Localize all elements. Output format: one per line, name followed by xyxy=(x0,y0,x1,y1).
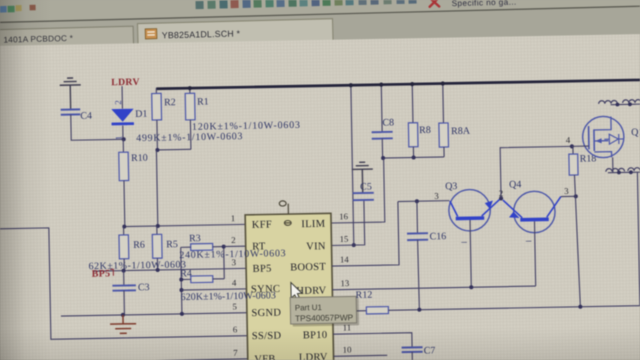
body diode xyxy=(604,134,623,144)
resistor R2 xyxy=(152,88,177,150)
svg-text:VIN: VIN xyxy=(306,241,326,252)
svg-text:R1: R1 xyxy=(197,97,209,108)
node: R4 left xyxy=(179,278,183,282)
wire: source row xyxy=(608,171,640,174)
svg-text:HDRV: HDRV xyxy=(296,285,326,297)
wire: SGND pin 5 net xyxy=(61,313,247,316)
wire: right edge drop to SW net xyxy=(637,172,639,305)
svg-text:R2: R2 xyxy=(164,97,176,108)
svg-text:R3: R3 xyxy=(189,233,201,244)
ground (power ground below C3, brown) xyxy=(110,315,136,334)
node: C3 bottom xyxy=(121,313,125,317)
wire: rail down to VIN pin 15 xyxy=(351,84,354,245)
inductor coils on source row xyxy=(606,168,640,172)
svg-text:499K±1%-1/10W-0603: 499K±1%-1/10W-0603 xyxy=(136,131,243,144)
svg-text:SGND: SGND xyxy=(251,308,281,320)
svg-text:15: 15 xyxy=(339,234,349,244)
resistor R8 xyxy=(408,83,432,158)
node: emitter junction xyxy=(499,196,503,200)
node: R2col/R5 on KFF xyxy=(156,224,160,228)
wire: ILIM riser down to pin 16 xyxy=(330,158,385,223)
transistor Q1 (power MOSFET) xyxy=(571,116,624,158)
wire: ILIM node horizontal (C8/R8/R8A bottoms) xyxy=(383,157,444,158)
svg-text:BP10: BP10 xyxy=(303,330,328,341)
svg-text:Q3: Q3 xyxy=(445,181,457,192)
resistor R6 xyxy=(119,226,145,270)
mouse cursor xyxy=(291,282,302,300)
svg-text:R5: R5 xyxy=(166,239,178,250)
channel bar xyxy=(593,129,595,151)
svg-text:BP5: BP5 xyxy=(253,264,272,275)
svg-text:C3: C3 xyxy=(138,282,150,293)
wire: RT pin 2 xyxy=(224,245,246,247)
wire: SYNC pin 4 xyxy=(181,289,246,290)
svg-text:240K±1%-1/10W-0603: 240K±1%-1/10W-0603 xyxy=(179,248,286,261)
wire: C4 bottom to D1 node xyxy=(71,114,124,141)
source stub xyxy=(594,152,611,158)
transistor Q3 (NPN) xyxy=(445,180,502,287)
svg-text:6: 6 xyxy=(233,324,238,334)
capacitor C4 xyxy=(61,109,92,122)
wire: drain row xyxy=(611,103,640,106)
U1 right pin numbers xyxy=(339,211,352,354)
wire: BP10 pin 11 to C7 xyxy=(333,333,412,349)
node: drain row junctions xyxy=(616,103,620,107)
svg-text:R12: R12 xyxy=(356,290,373,301)
node: C16 top tap xyxy=(415,199,419,203)
svg-text:1: 1 xyxy=(231,213,236,223)
wire: RT column (R3/R4 right to pin 2) xyxy=(223,247,226,279)
svg-text:2: 2 xyxy=(231,235,236,245)
capacitor C7 xyxy=(402,345,436,360)
svg-text:R10: R10 xyxy=(131,153,148,164)
svg-text:LDRV: LDRV xyxy=(111,77,140,89)
resistor R18 xyxy=(569,146,599,307)
svg-text:Part U1: Part U1 xyxy=(295,303,323,313)
node: Q3 base on HDRV xyxy=(469,285,473,289)
svg-text:10: 10 xyxy=(343,345,353,355)
pin 17 pad stub with bubble xyxy=(287,204,289,214)
svg-text:C5: C5 xyxy=(360,182,372,193)
resistor R8A xyxy=(438,82,471,157)
inductor coils above drain row xyxy=(599,100,640,104)
capacitor C16 xyxy=(406,201,447,310)
wire: off-page L into SS/SD pin 6 xyxy=(0,224,247,340)
tab 1: 1401A PCBDOC xyxy=(0,26,134,48)
node: C8 top on rail xyxy=(379,83,383,87)
wire: VFB pin 7 xyxy=(147,359,247,360)
toolbar red X icon xyxy=(429,0,439,7)
U1 left pin names xyxy=(250,219,283,360)
wire: emitter node riser to gate line xyxy=(500,146,573,198)
resistor R4 xyxy=(180,268,224,283)
mid stub with arrow xyxy=(594,140,608,142)
capacitor C8 xyxy=(371,84,395,159)
resistor R10 xyxy=(119,139,149,227)
resistor R5 xyxy=(152,226,178,270)
node: R1 top on rail xyxy=(188,86,192,90)
svg-text:C4: C4 xyxy=(80,111,92,122)
node: on R18 column xyxy=(574,194,578,198)
svg-text:4: 4 xyxy=(232,278,237,288)
capacitor C3 xyxy=(112,270,150,315)
wire: R2/R1 bottoms joined xyxy=(157,148,190,151)
svg-text:7: 7 xyxy=(233,348,238,358)
toolbar strip xyxy=(0,0,640,23)
svg-text:YB825A1DL.SCH *: YB825A1DL.SCH * xyxy=(162,28,241,40)
wire: SW pin 12 net with R12 xyxy=(333,310,367,313)
tab 2: YB825A1DL.SCH (active) xyxy=(138,19,334,46)
node: R5 on BP5 net xyxy=(156,268,160,272)
node: R2 bottom junction xyxy=(155,148,159,152)
node: D1/C4/R10 junction xyxy=(122,137,126,141)
node: RT node xyxy=(222,245,226,249)
drain stub xyxy=(594,117,611,130)
svg-text:KFF: KFF xyxy=(252,219,272,230)
pad marker inside xyxy=(284,220,291,225)
svg-text:Q4: Q4 xyxy=(509,179,521,190)
svg-text:R8A: R8A xyxy=(451,126,471,137)
svg-text:3: 3 xyxy=(564,186,569,196)
svg-text:5: 5 xyxy=(232,301,237,311)
node: R18 bottom on SW net xyxy=(578,305,582,309)
node: R8A top on rail xyxy=(441,81,445,85)
wire: KFF column down from R2 node xyxy=(156,150,157,226)
wire: BOOST pin 14 xyxy=(331,202,399,267)
wire: BOOST node to Q3 collector xyxy=(398,200,449,203)
ground (above C4) xyxy=(60,78,82,110)
toolbar icon specks left corner xyxy=(0,5,36,13)
node: C16 bottom on SW net xyxy=(417,308,421,312)
svg-text:D1: D1 xyxy=(135,109,147,120)
svg-text:−: − xyxy=(525,234,532,248)
op-amp U1 body (TPS40057PWP controller) xyxy=(245,200,334,360)
transistor Q4 (PNP) xyxy=(503,179,563,287)
wire: R3/R4 left column down to SGND xyxy=(181,247,182,313)
ground (above C5) xyxy=(352,162,374,193)
wire: source down to source row xyxy=(612,157,614,172)
wire: pin 10 stub xyxy=(334,354,388,357)
svg-text:−: − xyxy=(461,235,468,249)
wire: KFF pin 1 net xyxy=(124,224,245,226)
U1 right pin names xyxy=(289,219,328,360)
svg-text:13: 13 xyxy=(340,278,350,288)
resistor R3 xyxy=(180,233,223,251)
svg-text:LDRV: LDRV xyxy=(299,352,328,360)
svg-text:R6: R6 xyxy=(133,240,145,251)
wire: Q4 emitter to R18 column xyxy=(561,195,576,197)
wire: HDRV pin 13 xyxy=(332,286,535,290)
node: rail/VIN riser xyxy=(349,83,353,87)
wire: main VIN power rail xyxy=(156,80,640,89)
node: VIN riser on pin15 wire xyxy=(352,243,356,247)
svg-text:62K±1%-1/10W-0603: 62K±1%-1/10W-0603 xyxy=(88,259,186,272)
svg-text:14: 14 xyxy=(340,254,350,264)
node: R8 top on rail xyxy=(410,82,414,86)
svg-text:16: 16 xyxy=(339,211,349,221)
gate bar xyxy=(588,126,590,149)
node: R10/R6 on KFF xyxy=(122,225,126,229)
U1 left pin numbers xyxy=(231,213,239,358)
svg-text:2: 2 xyxy=(113,100,123,105)
svg-text:VFB: VFB xyxy=(254,354,276,360)
toolbar icons middle xyxy=(195,0,416,9)
node: gate node xyxy=(570,144,574,148)
svg-text:C8: C8 xyxy=(382,117,394,128)
gate stub xyxy=(572,145,589,147)
node: SYNC tap xyxy=(179,288,183,292)
diode D1 xyxy=(111,86,148,141)
svg-text:1401A PCBDOC *: 1401A PCBDOC * xyxy=(3,33,73,45)
svg-text:3: 3 xyxy=(434,191,439,201)
node: R8 bottom xyxy=(412,155,416,159)
svg-text:R8: R8 xyxy=(419,125,431,136)
svg-text:BOOST: BOOST xyxy=(290,262,326,274)
node: R6/C3 on BP5 net xyxy=(122,269,126,273)
node: C8 bottom / ILIM riser xyxy=(381,156,385,160)
svg-text:SS/SD: SS/SD xyxy=(252,331,282,343)
wire: VIN pin 15 xyxy=(331,200,365,246)
resistor R12 xyxy=(366,302,640,314)
svg-text:ILIM: ILIM xyxy=(301,219,326,230)
svg-text:620K±1%-1/10W-0603: 620K±1%-1/10W-0603 xyxy=(181,290,276,303)
svg-text:4: 4 xyxy=(566,135,571,145)
svg-text:C7: C7 xyxy=(424,345,436,356)
node: source row junctions xyxy=(617,171,621,175)
svg-text:Q1: Q1 xyxy=(631,127,640,138)
node: R3R4 column bottom xyxy=(180,312,184,316)
svg-text:C16: C16 xyxy=(429,231,446,242)
capacitor C5 xyxy=(353,182,374,201)
tooltip Part U1 TPS40057PWP xyxy=(290,296,359,326)
resistor R1 xyxy=(185,87,210,149)
wire: BP5 pin 3 net xyxy=(93,268,246,271)
svg-text:TPS40057PWP: TPS40057PWP xyxy=(295,312,354,323)
